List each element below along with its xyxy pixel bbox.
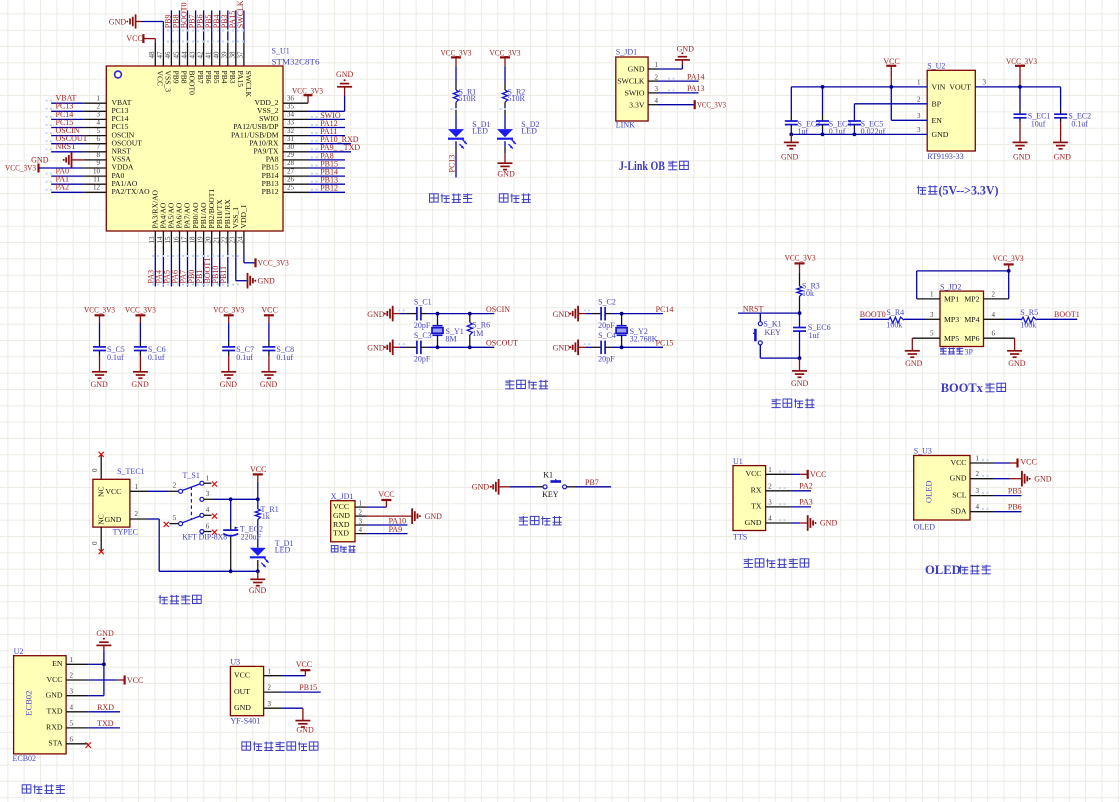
- svg-text:U3: U3: [230, 658, 240, 667]
- pin 34 SWIO (right): [283, 118, 308, 120]
- svg-text:MP4: MP4: [964, 315, 979, 324]
- svg-text:SWCLK: SWCLK: [236, 0, 245, 28]
- wire T_R1 to LED T_D1: [257, 520, 259, 548]
- svg-text:1: 1: [70, 656, 74, 664]
- wire S_C3 to OSCOUT: [421, 346, 428, 348]
- wire net PB13: [308, 183, 345, 185]
- wire U2 pin2 to VCC: [88, 679, 117, 681]
- svg-text:23: 23: [229, 236, 237, 244]
- power port GND below S_EC2: [1053, 141, 1068, 143]
- connector S_JD2 jumper body: [940, 291, 984, 346]
- svg-text:3.3V: 3.3V: [629, 100, 645, 109]
- pin 29 PA8 (right): [283, 159, 308, 161]
- power port GND below pin5: [905, 350, 920, 352]
- svg-text:RX: RX: [751, 486, 762, 495]
- svg-text:6: 6: [206, 523, 210, 531]
- svg-text:GND: GND: [131, 380, 149, 389]
- svg-text:2: 2: [917, 95, 921, 103]
- title yuyinshuchumokuai (voice output module): [744, 559, 753, 561]
- title xiazaikou (download port): [331, 546, 338, 552]
- title dianyuan 5V to 3.3V: [917, 185, 919, 194]
- wire net PC15: [51, 127, 84, 129]
- wire U1 pin2 net PA2: [791, 490, 811, 492]
- pin 9 VDDA (left): [84, 167, 107, 169]
- wire S_R1 to LED: [455, 102, 457, 115]
- svg-text:3: 3: [976, 487, 980, 495]
- svg-text:3P: 3P: [965, 347, 974, 356]
- svg-text:VCC: VCC: [333, 502, 349, 511]
- svg-text:GND: GND: [260, 380, 278, 389]
- svg-text:OLED: OLED: [925, 563, 961, 577]
- svg-text:7: 7: [97, 143, 101, 151]
- svg-text:5: 5: [173, 514, 177, 522]
- svg-text:S_C4: S_C4: [598, 331, 616, 340]
- svg-text:20pF: 20pF: [598, 355, 615, 364]
- svg-text:12: 12: [93, 184, 101, 192]
- svg-text:ECB02: ECB02: [24, 691, 34, 716]
- wire switch pin4 with no-ERC: [204, 514, 212, 516]
- pin 14 PA4/AO (bottom): [162, 231, 164, 253]
- svg-text:4: 4: [206, 506, 210, 514]
- value tiaoxianmao3P under S_JD2: [940, 347, 947, 349]
- LED T_D1: [250, 548, 266, 556]
- power port VCC above X_JD1: [381, 499, 391, 501]
- wire T_EC2 to GND rail: [230, 537, 232, 572]
- pin 5 OSCIN (left): [84, 135, 107, 137]
- svg-text:SDA: SDA: [951, 507, 967, 516]
- svg-text:GND: GND: [472, 483, 490, 492]
- svg-text:VSS_3: VSS_3: [164, 71, 173, 93]
- wire T_D1 cathode to GND: [257, 560, 259, 571]
- svg-text:VCC: VCC: [234, 671, 250, 680]
- svg-text:29: 29: [287, 151, 295, 159]
- power port GND below S_C8: [261, 371, 276, 373]
- svg-text:3: 3: [268, 700, 272, 708]
- svg-text:GND: GND: [104, 515, 121, 524]
- svg-text:6: 6: [70, 736, 74, 744]
- pin 44 BOOT0 (top): [187, 43, 189, 66]
- svg-text:GND: GND: [46, 691, 63, 700]
- junction dots crystal: [436, 312, 440, 316]
- svg-text:5: 5: [97, 127, 101, 135]
- svg-text:0.1uf: 0.1uf: [148, 353, 165, 362]
- wire GND to K1: [509, 486, 535, 488]
- svg-text:KFT DIP-8X8: KFT DIP-8X8: [182, 533, 227, 542]
- svg-text:TXD: TXD: [333, 529, 349, 538]
- svg-text:PB4: PB4: [220, 71, 229, 84]
- wire VIN rail: [791, 86, 927, 88]
- svg-text:VCC_3V3: VCC_3V3: [213, 305, 244, 314]
- svg-text:6: 6: [97, 135, 101, 143]
- wire VCC_3V3 to S_C5: [99, 323, 101, 341]
- svg-text:GND: GND: [628, 65, 645, 74]
- pin 39 PB3 (top): [227, 43, 229, 66]
- wire VCC_3V3 to S_C7: [228, 323, 230, 341]
- junction VOUT/VCC_3V3: [1018, 85, 1022, 89]
- svg-text:VCC: VCC: [378, 490, 394, 499]
- wire net PB0 (bottom): [195, 253, 197, 287]
- pin 0 top of S_TEC1 with no-ERC: [100, 455, 102, 480]
- wire S_JD1 pin4 to VCC_3V3: [658, 104, 695, 106]
- pin 23 VSS_1 (bottom): [235, 231, 237, 253]
- pin 6 OSCOUT (left): [84, 143, 107, 145]
- svg-text:GND: GND: [932, 130, 949, 139]
- power port GND below T_D1: [250, 578, 265, 580]
- svg-text:4: 4: [70, 703, 74, 711]
- wire net PB15: [308, 167, 345, 169]
- connector S_TEC1 TYPEC body: [93, 479, 130, 527]
- LED S_D1: [448, 129, 464, 137]
- junction NRST/S_R3/S_EC6: [798, 311, 802, 315]
- svg-text:30: 30: [287, 143, 295, 151]
- wire U2 pin4 net RXD: [88, 711, 120, 713]
- crystal S_Y1 8M: [437, 314, 439, 326]
- svg-text:1: 1: [930, 290, 934, 298]
- svg-text:GND: GND: [220, 380, 238, 389]
- wire S_C5 to GND: [99, 351, 101, 357]
- svg-text:GND: GND: [1013, 152, 1031, 161]
- capacitor S_EC5 0.022uf: [848, 120, 861, 122]
- svg-text:BOOT0: BOOT0: [860, 310, 886, 319]
- svg-text:MP1: MP1: [944, 295, 959, 304]
- wire S_D2 cathode to GND: [504, 141, 506, 146]
- svg-text:YF-S401: YF-S401: [230, 717, 260, 726]
- svg-text:24: 24: [237, 236, 245, 244]
- svg-text:8: 8: [97, 151, 101, 159]
- capacitor S_C2 20pF (top): [600, 307, 602, 321]
- wire U2 EN/GND to GND port: [103, 650, 105, 696]
- svg-text:PB9: PB9: [172, 71, 181, 84]
- svg-text:2: 2: [70, 672, 74, 680]
- svg-text:EN: EN: [932, 116, 943, 125]
- power port VCC right of U2: [123, 676, 125, 685]
- capacitor S_C8 0.1uf: [262, 346, 275, 348]
- wire S_U3 pin2 to GND: [994, 478, 1010, 480]
- svg-text:2: 2: [97, 103, 101, 111]
- wire node to T_R1: [257, 499, 259, 509]
- svg-text:GND: GND: [96, 629, 114, 638]
- power port GND below pin6: [1007, 350, 1022, 352]
- svg-text:3: 3: [768, 499, 772, 507]
- power port GND below S_D2: [498, 162, 513, 164]
- junction VCC/pin3: [256, 497, 260, 501]
- wire net OSCIN: [51, 135, 84, 137]
- capacitor S_EC1 10uf: [1019, 87, 1021, 108]
- svg-text:SWCLK: SWCLK: [617, 77, 645, 86]
- svg-text:VCC: VCC: [250, 465, 266, 474]
- svg-text:0.022uf: 0.022uf: [861, 127, 886, 136]
- title kebianchengdeng (programmable light): [430, 194, 439, 202]
- svg-text:KEY: KEY: [542, 490, 559, 499]
- capacitor S_EC2 0.1uf: [1060, 87, 1062, 108]
- wire S_JD1 pin3 net PA13: [658, 92, 699, 94]
- svg-text:20: 20: [205, 236, 213, 244]
- svg-text:VCC: VCC: [105, 487, 121, 496]
- wire U3 pin1 to VCC: [282, 675, 305, 677]
- pin 27 PB14 (right): [283, 175, 308, 177]
- svg-text:VCC_3V3: VCC_3V3: [490, 48, 521, 57]
- pin 21 PB10/TX (bottom): [219, 231, 221, 253]
- svg-text:4: 4: [97, 119, 101, 127]
- wire pin2 to loop: [984, 298, 1009, 300]
- pin 43 PB7 (top): [195, 43, 197, 66]
- svg-text:220uF: 220uF: [241, 532, 262, 541]
- svg-text:PB12: PB12: [262, 187, 279, 196]
- svg-text:1: 1: [359, 500, 363, 508]
- svg-text:TTS: TTS: [733, 533, 747, 542]
- svg-text:PA2: PA2: [799, 481, 813, 490]
- wire VCC_3V3 to S_R3: [799, 272, 801, 286]
- svg-text:VCC: VCC: [156, 71, 165, 87]
- pin 15 PA5/AO (bottom): [170, 231, 172, 253]
- wire S_JD1 pin2 net PA14: [658, 80, 699, 82]
- svg-text:LED: LED: [521, 127, 537, 136]
- power port VCC above U3 pin1: [300, 669, 310, 671]
- wire net PB7 (top): [195, 10, 197, 42]
- wire S_R3 to NRST node: [799, 296, 801, 313]
- wire S_C6 to GND: [139, 351, 141, 357]
- svg-text:0: 0: [91, 541, 99, 545]
- svg-text:GND: GND: [258, 276, 276, 285]
- svg-text:GND: GND: [425, 512, 443, 521]
- wire U1 pin4 to GND: [791, 522, 800, 524]
- svg-text:GND: GND: [249, 586, 267, 595]
- svg-text:37: 37: [237, 51, 245, 59]
- svg-text:22: 22: [221, 236, 229, 244]
- svg-text:32.768K: 32.768K: [630, 335, 658, 344]
- wire net BOOT1 (bottom): [211, 253, 213, 287]
- svg-text:MP5: MP5: [944, 334, 959, 343]
- svg-text:PA14: PA14: [687, 72, 705, 81]
- power port GND bottom right of MCU: [247, 273, 249, 289]
- svg-text:0.1uf: 0.1uf: [107, 353, 124, 362]
- svg-text:VCC: VCC: [261, 305, 277, 314]
- wire net PB4 (top): [219, 10, 221, 42]
- svg-text:X_JD1: X_JD1: [331, 492, 354, 501]
- svg-text:(5V-->3.3V): (5V-->3.3V): [939, 184, 999, 198]
- pin 16 PA6/AO (bottom): [179, 231, 181, 253]
- svg-text:GND: GND: [91, 380, 109, 389]
- svg-text:PC13: PC13: [447, 155, 456, 173]
- wire net PB5 (top): [211, 10, 213, 42]
- connector X_JD1 body: [331, 501, 355, 542]
- svg-text:S_R4: S_R4: [886, 308, 904, 317]
- svg-text:U1: U1: [733, 457, 743, 466]
- capacitor S_C6 0.1uf: [134, 346, 147, 348]
- power port GND below S_EC1: [1013, 141, 1028, 143]
- svg-text:2: 2: [768, 482, 772, 490]
- svg-text:S_JD1: S_JD1: [616, 47, 637, 56]
- svg-text:PC15: PC15: [656, 339, 674, 348]
- power port VCC right of U1: [807, 470, 809, 479]
- svg-text:20pF: 20pF: [414, 321, 431, 330]
- wire VCC to node: [257, 482, 259, 500]
- svg-text:GND: GND: [677, 45, 695, 54]
- svg-text:18: 18: [188, 236, 196, 244]
- svg-text:21: 21: [213, 236, 221, 244]
- wire BP to cap S_EC5: [854, 103, 927, 105]
- svg-text:S_JD2: S_JD2: [940, 282, 961, 291]
- junction pin3/T_EC2: [229, 497, 233, 501]
- pin 4 PC15 (left): [84, 127, 107, 129]
- capacitor T_EC2 220uF: [230, 499, 232, 524]
- wire net PB14: [308, 175, 345, 177]
- wire U3 pin2 net PB15: [282, 691, 321, 693]
- svg-text:1: 1: [206, 474, 210, 482]
- svg-text:GND: GND: [1008, 359, 1026, 368]
- svg-text:PB8: PB8: [180, 71, 189, 84]
- svg-text:EN: EN: [52, 659, 63, 668]
- svg-text:S_U2: S_U2: [927, 62, 945, 71]
- svg-text:VCC_3V3: VCC_3V3: [5, 164, 36, 173]
- svg-text:GND: GND: [1054, 152, 1072, 161]
- wire X_JD1 pin1 to VCC: [366, 506, 386, 508]
- svg-text:VCC_3V3: VCC_3V3: [441, 48, 472, 57]
- wire S_EC6 to GND node: [799, 331, 801, 358]
- svg-text:VCC: VCC: [127, 676, 143, 685]
- pin 3 PC14 (left): [84, 118, 107, 120]
- power port GND right of S_U3: [1021, 471, 1023, 487]
- svg-text:15: 15: [164, 236, 172, 244]
- wire net PB12: [308, 191, 345, 193]
- svg-text:1M: 1M: [472, 329, 483, 338]
- connector U1 TTS body: [733, 466, 766, 531]
- svg-text:GND: GND: [905, 359, 923, 368]
- svg-text:1: 1: [917, 78, 921, 86]
- pin 10 PA0 (left): [84, 175, 107, 177]
- svg-text:GND: GND: [553, 344, 571, 353]
- power port GND below reset: [799, 358, 801, 371]
- wire net PA5 (bottom): [170, 253, 172, 287]
- wire net VBAT: [51, 102, 84, 104]
- svg-text:3: 3: [930, 311, 934, 319]
- svg-text:VCC: VCC: [745, 469, 761, 478]
- svg-text:T_S1: T_S1: [183, 471, 200, 480]
- wire U2 pin6 STA with no-ERC: [66, 743, 85, 745]
- switch T_S1 gang dashed link: [190, 487, 192, 519]
- wire net PA10_RXD: [308, 143, 351, 145]
- svg-text:GND: GND: [296, 725, 314, 734]
- wire S_D1 cathode net PC13: [455, 141, 457, 146]
- junction dots S_R6: [468, 312, 472, 316]
- svg-text:44: 44: [180, 51, 188, 59]
- svg-text:3: 3: [983, 78, 987, 86]
- svg-text:34: 34: [287, 111, 295, 119]
- svg-text:GND: GND: [336, 70, 354, 79]
- resistor T_R1 1k: [255, 509, 260, 520]
- svg-text:48: 48: [148, 51, 156, 59]
- svg-text:2: 2: [268, 684, 272, 692]
- svg-text:47: 47: [156, 51, 164, 59]
- power port GND below S_C6: [133, 371, 148, 373]
- wire net PA12: [308, 127, 345, 129]
- wire net PB9 (top): [170, 10, 172, 42]
- svg-text:510R: 510R: [508, 94, 526, 103]
- wire switch pin5 with no-ERC: [170, 523, 179, 525]
- svg-text:20pF: 20pF: [414, 355, 431, 364]
- wire net PB8 (top): [179, 10, 181, 42]
- wire net PA0: [51, 175, 84, 177]
- svg-text:S_U3: S_U3: [914, 446, 932, 455]
- svg-text:VCC_3V3: VCC_3V3: [785, 253, 816, 262]
- power port VCC right of S_U3: [1016, 459, 1018, 468]
- title lanyamokuai (bluetooth module): [22, 785, 31, 793]
- svg-text:PB7: PB7: [196, 71, 205, 84]
- svg-text:S_C1: S_C1: [414, 297, 432, 306]
- svg-text:0.1uf: 0.1uf: [829, 127, 846, 136]
- svg-text:2: 2: [976, 470, 980, 478]
- svg-text:PA3: PA3: [799, 498, 813, 507]
- wire net PA15 (top): [235, 10, 237, 42]
- wire S_K1 to GND node: [759, 345, 761, 358]
- svg-text:39: 39: [221, 51, 229, 59]
- svg-text:1uf: 1uf: [809, 331, 820, 340]
- junction VIN/VCC/EN: [889, 85, 893, 89]
- wire net PA1: [51, 183, 84, 185]
- svg-text:PB6: PB6: [204, 71, 213, 84]
- pin 7 NRST (left): [84, 151, 107, 153]
- svg-text:VCC: VCC: [126, 34, 142, 43]
- connector U3 YF-S401 body: [230, 666, 263, 715]
- pin 33 PA12/USB/DP (right): [283, 127, 308, 129]
- power port VCC_3V3 right of S_JD1: [694, 100, 696, 109]
- svg-text:38: 38: [229, 51, 237, 59]
- wire net BOOT0 (top): [187, 10, 189, 42]
- power port GND below S_EC3: [790, 134, 792, 142]
- wire net PA8: [308, 159, 345, 161]
- svg-text:3: 3: [917, 112, 921, 120]
- wire net PB6 (top): [203, 10, 205, 42]
- wire TYPEC VCC to switch: [148, 490, 168, 492]
- svg-text:2: 2: [359, 509, 363, 517]
- crystal S_Y2 32.768K: [621, 314, 623, 326]
- wire S_R5 to BOOT1: [1037, 318, 1078, 320]
- wire pin 23 VSS_1 to GND: [235, 253, 237, 281]
- power port VCC_3V3 bottom right of MCU: [254, 258, 256, 267]
- wire NRST: [738, 312, 800, 314]
- svg-text:10k: 10k: [802, 289, 814, 298]
- svg-text:VCC: VCC: [296, 660, 312, 669]
- wire net PA7 (bottom): [187, 253, 189, 287]
- wire S_JD1 pin1 to GND: [658, 68, 682, 70]
- svg-text:36: 36: [287, 94, 295, 102]
- title dianyuandianlu (power circuit): [159, 595, 161, 604]
- svg-text:3: 3: [97, 111, 101, 119]
- svg-text:2: 2: [135, 510, 139, 518]
- component S_U1 MCU STM32C8T6 body: [106, 66, 283, 231]
- wire X_JD1 pin3 net PA10: [366, 524, 407, 526]
- capacitor S_EC6 1uf: [793, 327, 806, 329]
- svg-text:K1: K1: [543, 471, 553, 480]
- svg-text:4: 4: [992, 311, 996, 319]
- pin 48 VCC (top): [154, 43, 156, 66]
- svg-text:KEY: KEY: [765, 328, 782, 337]
- svg-text:45: 45: [172, 51, 180, 59]
- svg-text:0.1uf: 0.1uf: [236, 353, 253, 362]
- svg-text:VCC_3V3: VCC_3V3: [125, 305, 156, 314]
- svg-text:NRST: NRST: [743, 304, 764, 313]
- svg-text:42: 42: [196, 51, 204, 59]
- svg-text:TX: TX: [751, 502, 762, 511]
- resistor S_R1 510R: [453, 90, 458, 102]
- svg-text:8M: 8M: [446, 335, 457, 344]
- power port GND below S_C5: [92, 371, 107, 373]
- pin 30 PA9/TX (right): [283, 151, 308, 153]
- pin 47 VSS_3 (top): [162, 43, 164, 66]
- svg-text:OSCIN: OSCIN: [486, 305, 510, 314]
- svg-text:VCC: VCC: [46, 675, 62, 684]
- svg-text:510R: 510R: [459, 94, 477, 103]
